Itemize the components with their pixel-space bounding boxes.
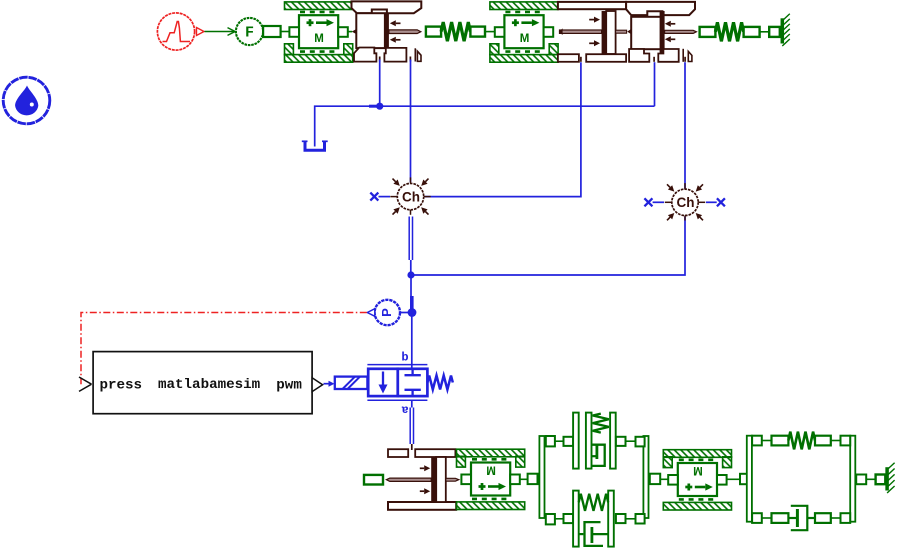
junction node <box>369 103 383 110</box>
svg-text:M: M <box>486 464 496 476</box>
fluid properties icon (drop logo) <box>3 77 50 124</box>
link <box>866 478 875 480</box>
hydraulic cylinder U3 <box>386 449 458 510</box>
hydraulic jack U1 <box>352 1 422 61</box>
link <box>660 478 668 480</box>
signal source (piecewise linear input) <box>157 13 204 50</box>
link <box>281 31 290 33</box>
wire: down to sensor node <box>410 275 412 296</box>
mass M3 with friction <box>457 449 525 509</box>
mass M2 with friction <box>490 2 558 62</box>
svg-text:M: M <box>520 33 530 45</box>
block: press matlabamesim pwm <box>93 352 312 414</box>
chamber Ch1 <box>390 177 430 214</box>
svg-text:pwm: pwm <box>276 378 302 394</box>
spring-damper frame block B2 <box>740 432 866 531</box>
wire: U1 port B to chamber Ch1 <box>410 60 412 183</box>
svg-text:M: M <box>314 33 324 45</box>
tank symbol <box>302 141 328 151</box>
wire: Ch1 to U2 left port <box>425 62 581 196</box>
link <box>727 478 740 480</box>
pressure sensor P <box>367 300 408 325</box>
force source F <box>236 18 281 45</box>
svg-text:a: a <box>401 403 408 417</box>
x-mark (plugged port) <box>370 193 378 201</box>
wire: Ch2 down to junction <box>413 217 685 276</box>
svg-text:b: b <box>401 351 408 365</box>
signal input port <box>79 377 92 391</box>
two-branch elastic contact block B1 <box>528 413 661 547</box>
spring K1 <box>426 22 498 41</box>
servo valve (2/2 solenoid) <box>335 351 453 417</box>
svg-text:press: press <box>100 378 143 394</box>
wire: U2 mid port down <box>654 62 656 106</box>
wire: U2 right port to chamber Ch2 <box>684 62 686 188</box>
spring K2 <box>700 22 780 41</box>
x-mark (plugged port) <box>644 198 652 206</box>
anchor square <box>876 475 886 485</box>
svg-text:P: P <box>379 308 394 317</box>
wall (bottom right) <box>887 463 895 493</box>
control signal wire (dash-dot) <box>81 313 367 385</box>
junction node <box>407 271 414 278</box>
wire <box>653 201 664 203</box>
svg-text:Ch: Ch <box>677 195 695 210</box>
link <box>348 31 352 33</box>
wire (thick overlap) <box>410 296 414 313</box>
wall (top right) <box>782 14 790 46</box>
wire: node to valve port b <box>411 313 413 376</box>
signal output port <box>312 378 323 392</box>
wire <box>379 196 391 198</box>
junction node at sensor <box>408 308 417 317</box>
wire <box>706 201 717 203</box>
port stub <box>411 444 413 450</box>
mass M4 with friction <box>663 450 731 510</box>
hydraulic pipe (double line) <box>409 217 412 276</box>
signal wire to valve <box>324 381 335 387</box>
hydraulic jack U2 (dual) <box>558 2 697 62</box>
svg-text:F: F <box>245 25 254 42</box>
svg-text:Ch: Ch <box>402 189 420 204</box>
x-mark (plugged port) <box>717 198 725 206</box>
link <box>520 478 527 480</box>
wire: main horizontal to tank <box>315 106 655 146</box>
svg-text:matlabamesim: matlabamesim <box>158 377 260 393</box>
mass M1 with friction <box>285 2 353 62</box>
wire: U1 port A down <box>379 60 381 107</box>
chamber Ch2 <box>665 183 705 220</box>
anchor stub <box>364 475 383 485</box>
signal wire <box>205 28 236 36</box>
wire: valve port a <box>411 400 413 407</box>
hydraulic pipe (double line) <box>410 408 413 445</box>
svg-text:M: M <box>693 464 703 476</box>
